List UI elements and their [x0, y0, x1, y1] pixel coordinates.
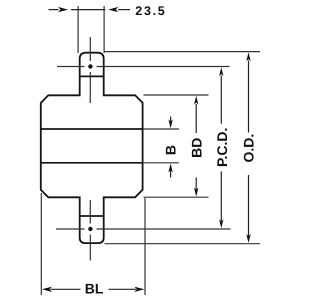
dim BD extension bottom: [144, 196, 209, 198]
dim B extension bottom: [144, 162, 180, 164]
tooth width line top: [41, 128, 143, 130]
pitch point dot bottom: [88, 227, 92, 231]
dim BD line + arrows: [194, 96, 198, 105]
dim OD extension bottom: [105, 243, 261, 245]
dim B extension top: [144, 128, 180, 130]
svg-text:B: B: [162, 145, 178, 155]
centerline horizontal bottom boss / PCD ext bottom: [56, 228, 85, 230]
tooth width line bottom: [41, 162, 143, 164]
sprocket body outline: [41, 53, 143, 243]
centerline vertical top boss: [89, 37, 91, 61]
pitch point dot top: [88, 64, 92, 68]
dim BD extension top: [144, 94, 209, 96]
svg-text:O.D.: O.D.: [240, 134, 256, 163]
dim B arrow down: [170, 117, 172, 123]
svg-text:BD: BD: [189, 138, 205, 158]
svg-text:BL: BL: [85, 281, 104, 297]
dim BL line + arrows: [42, 287, 52, 292]
dim 23.5 arrow right: [108, 7, 118, 12]
dim 23.5 line left + arrow: [49, 9, 59, 11]
svg-text:23.5: 23.5: [135, 4, 166, 18]
dim PCD line + arrows: [219, 67, 223, 76]
top boss root line: [80, 75, 104, 77]
dim BL extension left: [40, 193, 42, 295]
centerline horizontal top boss / PCD ext top: [57, 66, 85, 68]
centerline vertical bottom boss: [89, 200, 91, 224]
dim OD line + arrows: [246, 52, 250, 61]
dim 23.5 extension line left: [77, 6, 79, 53]
dim BL extension right: [144, 198, 146, 295]
dim 23.5 extension line right: [103, 6, 105, 53]
dim B arrow up: [168, 163, 172, 172]
bottom boss root line: [80, 215, 104, 217]
svg-text:P.C.D.: P.C.D.: [214, 128, 230, 167]
dim OD extension top: [105, 51, 261, 53]
